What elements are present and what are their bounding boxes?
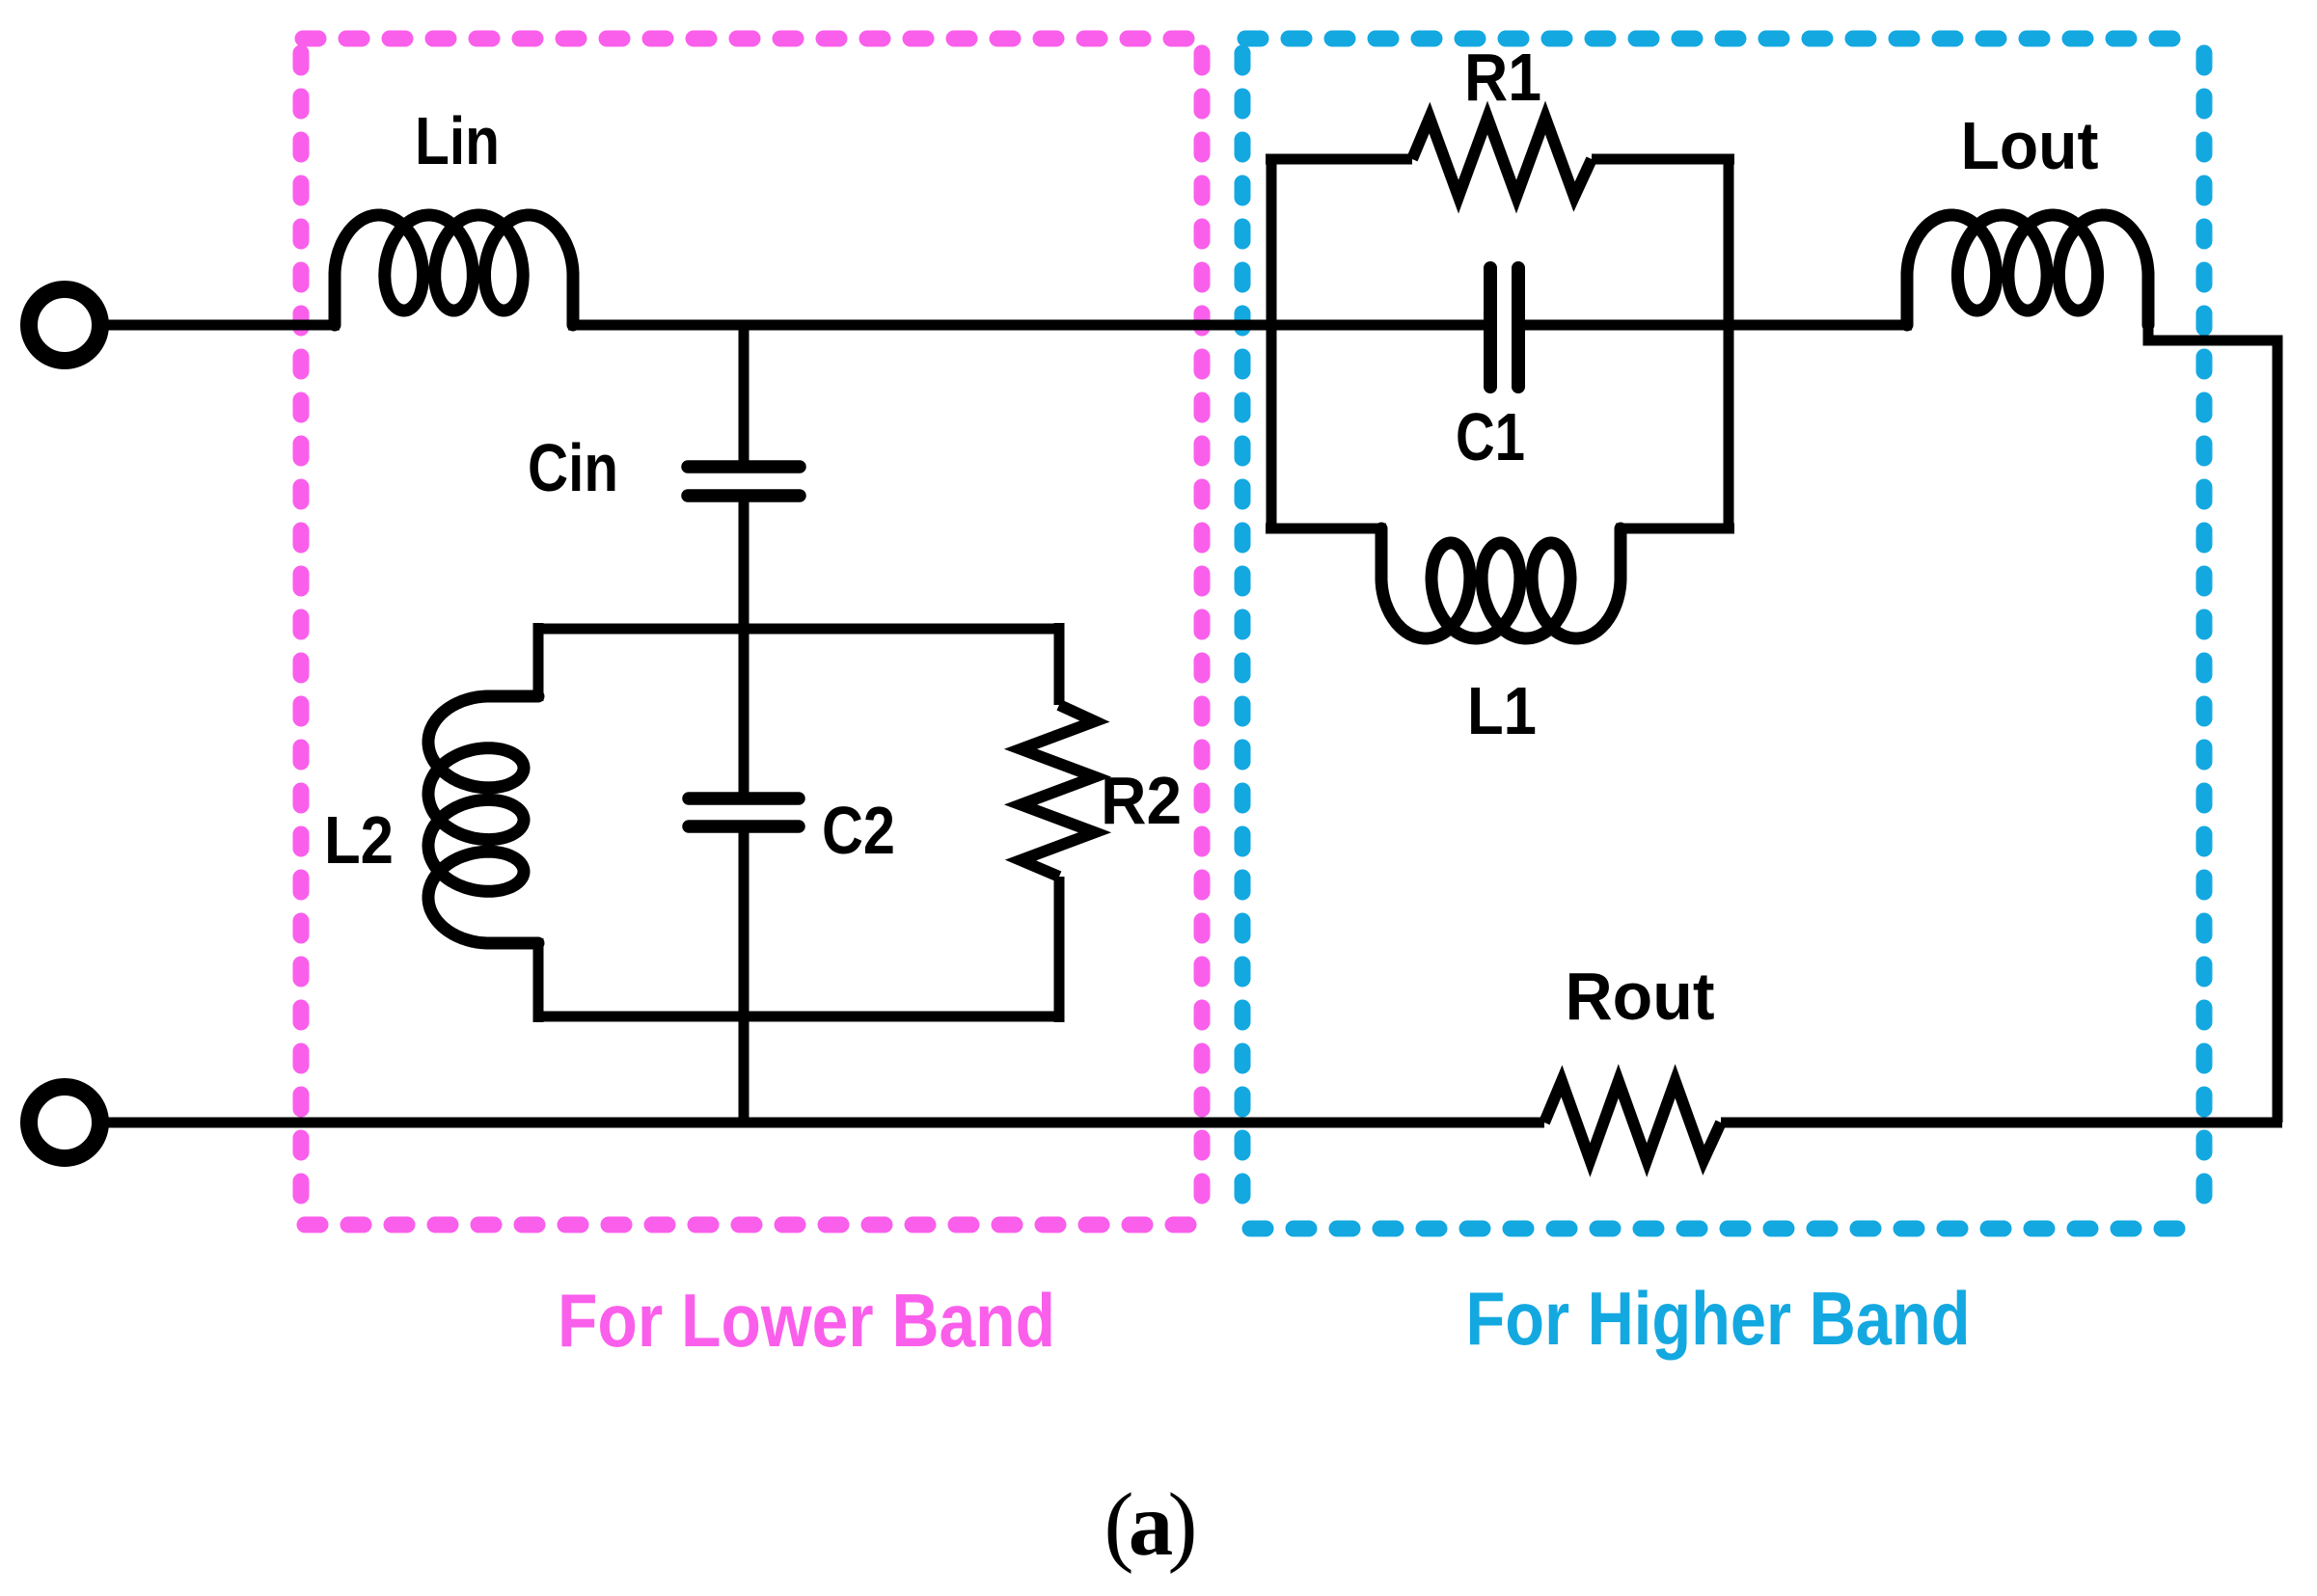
wire: Cin to tank top rail — [739, 500, 750, 629]
input terminal (top) — [29, 289, 100, 361]
capacitor Cin — [688, 467, 800, 496]
inductor L2 — [428, 696, 538, 943]
wire: tank left leg bottom (from L2) — [533, 938, 544, 1022]
svg-text:Rout: Rout — [1566, 959, 1715, 1034]
wire: tank top rail — [538, 624, 1059, 635]
svg-text:Lin: Lin — [415, 103, 500, 178]
wire: R1/C1/L1 cell right edge — [1724, 159, 1734, 528]
svg-text:C1: C1 — [1456, 399, 1525, 474]
wire: tank left leg top (to L2) — [533, 623, 544, 701]
svg-text:R1: R1 — [1464, 40, 1541, 115]
svg-text:For Lower Band: For Lower Band — [558, 1278, 1055, 1363]
higher-band region box (cyan dashed) — [1242, 39, 2204, 1229]
wire: top rail from C1 right plate to Lout — [1524, 320, 1912, 331]
wire: cell bottom rail left (to L1) — [1266, 524, 1386, 534]
capacitor C2 — [689, 798, 799, 826]
resistor R1 — [1412, 118, 1592, 197]
wire: cell top rail left (to R1) — [1266, 154, 1412, 165]
wire: bottom rail from Rout to right-side corner — [1721, 1118, 2282, 1128]
svg-text:C2: C2 — [822, 793, 895, 868]
wire: tank right leg top (to R2) — [1054, 623, 1065, 705]
inductor Lin — [335, 215, 573, 325]
wire: tank top rail node to C2 — [739, 629, 750, 795]
svg-text:L2: L2 — [324, 802, 394, 878]
wire: top rail from Lin to C1 left plate — [568, 320, 1485, 331]
wire: C2 to tank bottom rail — [739, 830, 750, 1016]
wire: shunt branch from top rail to Cin — [739, 325, 750, 463]
wire: output jog and right-side drop to bottom rail — [2148, 325, 2277, 1123]
wire: tank bottom rail — [538, 1012, 1059, 1022]
wire: cell top rail right (from R1) — [1592, 154, 1734, 165]
lower-band region box (magenta dashed) — [301, 39, 1202, 1225]
wire: tank right leg bottom (from R2) — [1054, 877, 1065, 1022]
wire: top rail from input terminal to Lin — [106, 320, 340, 331]
resistor Rout — [1544, 1081, 1721, 1160]
svg-text:R2: R2 — [1101, 763, 1182, 838]
resistor R2 — [1021, 705, 1095, 877]
svg-text:For Higher Band: For Higher Band — [1466, 1276, 1971, 1361]
input terminal (bottom) — [29, 1087, 100, 1158]
inductor L1 — [1381, 528, 1621, 638]
wire: R1/C1/L1 cell left edge — [1267, 159, 1277, 528]
svg-text:L1: L1 — [1467, 673, 1537, 748]
inductor Lout — [1907, 215, 2148, 325]
svg-text:Lout: Lout — [1961, 108, 2099, 183]
wire: bottom rail from input terminal to Rout — [106, 1118, 1544, 1128]
svg-text:(a): (a) — [1104, 1475, 1198, 1575]
capacitor C1 — [1490, 268, 1518, 387]
wire: cell bottom rail right (from L1) — [1616, 524, 1734, 534]
wire: tank bottom rail to bottom rail junction — [739, 1016, 750, 1123]
svg-text:Cin: Cin — [528, 430, 618, 505]
